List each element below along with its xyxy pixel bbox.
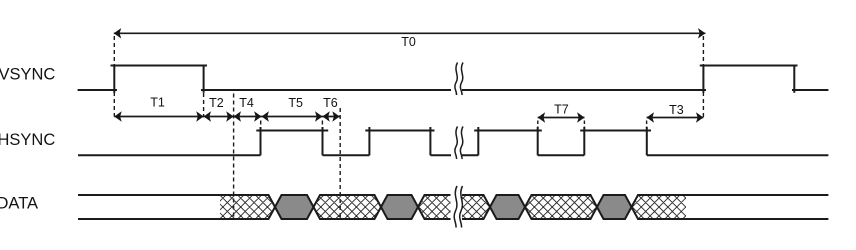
dashed tick under T7 left (537, 121, 539, 129)
svg-text:DATA: DATA (0, 195, 38, 213)
VSYNC wire: pulse2 falling edge (793, 65, 795, 93)
T7 left arrowhead (538, 112, 545, 122)
T4 right arrowhead (254, 111, 261, 121)
HSYNC wire: low left (78, 154, 261, 156)
HSYNC pulse1 falling edge (322, 127, 324, 155)
svg-text:T1: T1 (150, 96, 165, 110)
svg-text:T2: T2 (209, 96, 224, 110)
T3 right arrowhead (696, 112, 703, 122)
svg-text:T3: T3 (669, 103, 684, 117)
break curves VSYNC (455, 63, 458, 96)
DATA bus bottom outline (78, 207, 828, 219)
HSYNC pulse2 falling edge (429, 127, 431, 155)
HSYNC pulse4 falling edge (646, 127, 648, 155)
svg-text:VSYNC: VSYNC (0, 66, 55, 84)
svg-text:T0: T0 (401, 35, 416, 49)
T3 dimension line (647, 117, 704, 119)
DATA bus top outline (78, 195, 828, 207)
T6 right arrowhead (332, 111, 339, 121)
VSYNC wire: pulse1 rising edge (113, 65, 115, 93)
T0 left arrowhead (114, 28, 121, 38)
dashed tick under T7 right (583, 121, 585, 129)
T7 right arrowhead (577, 112, 584, 122)
VSYNC wire: low segment right (792, 89, 828, 91)
T5 left arrowhead (262, 111, 269, 121)
HSYNC pulse3 high line (474, 130, 542, 132)
VSYNC wire: pulse2 rising edge (702, 65, 704, 93)
T2 right arrowhead (226, 111, 233, 121)
dashed guide at T6 end x=340.2 (339, 108, 341, 219)
svg-text:T7: T7 (554, 103, 569, 117)
VSYNC wire: pulse1 falling edge (203, 65, 205, 93)
svg-text:HSYNC: HSYNC (0, 131, 55, 149)
HSYNC pulse3 falling edge (537, 127, 539, 155)
break mask DATA (451, 190, 463, 224)
T0 right arrowhead (698, 28, 705, 38)
dashed tick under T5/T6 boundary (321, 121, 323, 125)
T1 left arrowhead (114, 111, 121, 121)
DATA gray hex 2 (381, 195, 418, 219)
VSYNC wire: low segment middle (201, 89, 706, 91)
svg-text:T6: T6 (323, 96, 338, 110)
T6 left arrowhead (322, 111, 329, 121)
HSYNC pulse3 rising edge (477, 127, 479, 155)
break curves DATA (454, 186, 457, 228)
dashed guide at T2/T4 boundary x=233.6 (233, 94, 235, 219)
svg-text:T5: T5 (288, 96, 303, 110)
dashed guide at T0 end x=703.4 (702, 36, 704, 118)
DATA gray hex 3 (490, 195, 525, 219)
HSYNC pulse4 rising edge (583, 127, 585, 155)
VSYNC wire: pulse1 high line (111, 65, 208, 67)
DATA crosshatch fill (202, 195, 716, 219)
break curves HSYNC (455, 127, 458, 160)
T4 left arrowhead (234, 111, 241, 121)
HSYNC wire: low pulse T7 (538, 154, 585, 156)
T1 right arrowhead (196, 111, 203, 121)
dashed tick under T3 left (646, 121, 648, 129)
dashed guide at VSYNC rise x=114 (113, 36, 115, 117)
break mask HSYNC (451, 149, 462, 161)
VSYNC wire: low segment left (78, 89, 117, 91)
HSYNC wire: low before break (430, 154, 478, 156)
svg-text:T4: T4 (239, 96, 254, 110)
dashed guide at VSYNC fall x=203.6 (203, 93, 205, 117)
T7 dimension line (538, 117, 585, 119)
HSYNC pulse4 high line (580, 130, 651, 132)
T3 left arrowhead (647, 112, 654, 122)
T5 right arrowhead (315, 111, 322, 121)
HSYNC wire: low right (647, 154, 829, 156)
DATA gray hex 1 (275, 195, 314, 219)
T1..T6 dimension line (114, 116, 339, 118)
VSYNC wire: pulse2 high line (700, 65, 798, 67)
HSYNC pulse2 high line (365, 130, 434, 132)
T0 dimension line (114, 32, 706, 34)
HSYNC pulse2 rising edge (368, 127, 370, 155)
T2 left arrowhead (204, 111, 211, 121)
break mask VSYNC (451, 84, 462, 96)
dashed tick under T4/T5 boundary (260, 121, 262, 125)
DATA gray hex 4 (597, 195, 632, 219)
HSYNC pulse1 rising edge (260, 127, 262, 155)
HSYNC wire: low between pulses (323, 154, 370, 156)
HSYNC pulse1 high line (256, 130, 328, 132)
